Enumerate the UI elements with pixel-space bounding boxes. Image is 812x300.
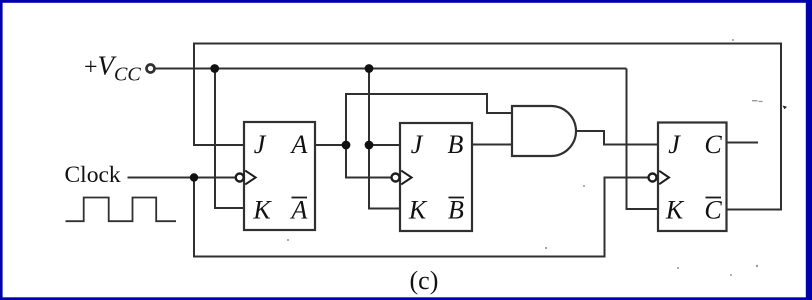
- svg-text:J: J: [668, 130, 681, 159]
- wire Clock to FF3 clock: [194, 178, 648, 257]
- AND gate G1: [512, 106, 576, 156]
- wire C output stub: [727, 142, 759, 144]
- wire feedback C-bar to J1: [194, 44, 781, 210]
- wire VCC to K2: [369, 145, 400, 209]
- svg-text:C: C: [704, 130, 722, 159]
- junction dot clock: [190, 173, 198, 181]
- flip-flop U2 clock bubble: [392, 174, 400, 182]
- svg-text:K: K: [665, 196, 685, 225]
- junction dot VCC-K1: [210, 64, 219, 73]
- flip-flop U1 clock bubble: [236, 174, 244, 182]
- svg-text:A: A: [290, 130, 308, 159]
- svg-text:A: A: [290, 196, 308, 225]
- flip-flop U2 box: [400, 123, 472, 231]
- flip-flop U1 box: [244, 122, 315, 230]
- junction dot A line: [342, 141, 351, 150]
- svg-text:(c): (c): [410, 266, 439, 295]
- wire VCC to K3: [627, 69, 659, 210]
- svg-text:C: C: [704, 196, 722, 225]
- wire Clock input: [128, 177, 236, 179]
- svg-text:Clock: Clock: [65, 162, 121, 188]
- wire B output to AND gate: [472, 144, 512, 146]
- svg-text:B: B: [448, 196, 464, 225]
- junction dot VCC-J2K2: [365, 64, 374, 73]
- wire VCC to K1: [215, 69, 244, 209]
- flip-flop U3 clock bubble: [649, 174, 657, 182]
- svg-text:B: B: [448, 130, 464, 159]
- svg-text:J: J: [411, 130, 424, 159]
- svg-text:K: K: [252, 196, 272, 225]
- wire A output to dot: [315, 144, 346, 146]
- wire A to AND gate input: [346, 94, 512, 145]
- scan noise specks: [287, 39, 787, 276]
- flip-flop U3 box: [658, 123, 727, 232]
- node +VCC terminal: [147, 65, 155, 73]
- junction dot J2 line: [365, 141, 374, 150]
- clock waveform: [66, 198, 177, 222]
- flip-flop U2 clock triangle: [401, 171, 411, 185]
- wire VCC rail: [155, 68, 627, 70]
- wire A to FF2 clock: [346, 145, 391, 178]
- wire VCC to J2: [369, 69, 400, 146]
- flip-flop U3 clock triangle: [659, 171, 669, 184]
- svg-text:J: J: [254, 130, 267, 159]
- wire AND output to J3: [576, 131, 658, 145]
- svg-text:K: K: [408, 196, 428, 225]
- flip-flop U1 clock triangle: [245, 171, 255, 185]
